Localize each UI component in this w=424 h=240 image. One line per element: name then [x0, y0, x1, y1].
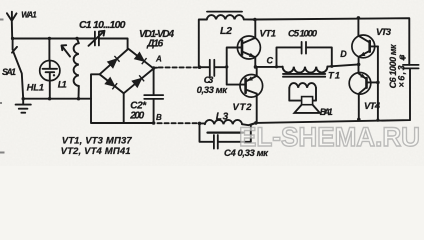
svg-text:L3: L3 [216, 112, 229, 123]
svg-text:WA1: WA1 [21, 11, 37, 20]
svg-text:SA1: SA1 [2, 67, 16, 77]
svg-text:Д16: Д16 [146, 39, 163, 50]
svg-text:EL-SHEMA.RU: EL-SHEMA.RU [239, 122, 420, 152]
svg-text:D: D [340, 49, 347, 59]
svg-text:0,33 мк: 0,33 мк [197, 85, 229, 96]
svg-text:C: C [267, 55, 274, 65]
svg-text:VT2, VT4 МП41: VT2, VT4 МП41 [61, 146, 131, 157]
svg-text:С1 10...100: С1 10...100 [79, 19, 126, 31]
svg-text:VT1: VT1 [260, 29, 277, 40]
svg-text:ВА1: ВА1 [320, 107, 333, 117]
svg-text:×6,3 в: ×6,3 в [396, 54, 406, 88]
svg-text:B: B [156, 113, 162, 122]
svg-text:VT4: VT4 [364, 101, 381, 112]
svg-text:Т1: Т1 [328, 71, 340, 82]
svg-text:VT1, VT3 МП37: VT1, VT3 МП37 [62, 136, 133, 147]
svg-text:A: A [155, 54, 162, 63]
svg-text:С5 1000: С5 1000 [288, 29, 318, 40]
svg-text:L1: L1 [58, 80, 67, 91]
svg-text:200: 200 [129, 111, 144, 122]
svg-text:HL1: HL1 [27, 82, 44, 93]
svg-text:VT3: VT3 [376, 27, 392, 38]
svg-text:L2: L2 [220, 25, 232, 37]
svg-text:VT2: VT2 [233, 102, 253, 113]
